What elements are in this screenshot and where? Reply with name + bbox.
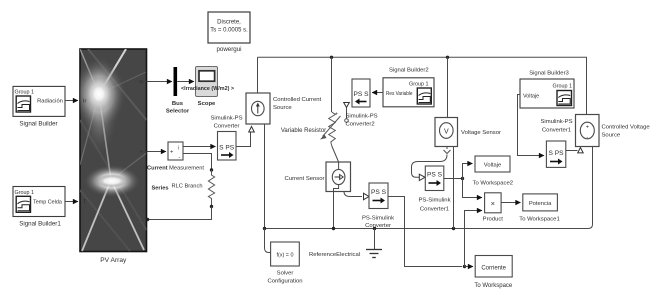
- svg-text:PS S: PS S: [353, 91, 369, 98]
- svg-text:To Workspace: To Workspace: [474, 283, 513, 289]
- svg-text:Signal Builder: Signal Builder: [19, 121, 57, 128]
- wire Signal Builder -> PV Ir: [65, 100, 78, 102]
- svg-text:Signal Builder2: Signal Builder2: [389, 68, 429, 74]
- svg-text:Source: Source: [273, 105, 292, 111]
- svg-text:Current Measurement: Current Measurement: [147, 166, 204, 172]
- svg-text:Signal Builder3: Signal Builder3: [529, 71, 569, 77]
- svg-text:Ts = 0.0005 s.: Ts = 0.0005 s.: [210, 28, 248, 34]
- svg-text:Potencia: Potencia: [529, 201, 552, 207]
- Product: [483, 193, 504, 223]
- svg-text:Converter: Converter: [214, 124, 240, 130]
- svg-text:Controlled Current: Controlled Current: [273, 97, 321, 103]
- svg-text:-: -: [352, 194, 354, 200]
- svg-text:Res Variable: Res Variable: [386, 91, 413, 97]
- wire Current Measurement - -> RLC top: [183, 154, 212, 169]
- wire m -> Bus Selector: [147, 81, 173, 83]
- svg-text:Simulink-PS: Simulink-PS: [210, 116, 242, 122]
- svg-text:Corriente: Corriente: [481, 266, 506, 272]
- Current Measurement: [147, 142, 204, 172]
- svg-text:Current Sensor: Current Sensor: [285, 176, 325, 182]
- svg-text:PS-Simulink: PS-Simulink: [362, 216, 394, 222]
- wire voltage sensor V out -> PS-Simulink Converter1: [412, 155, 448, 178]
- svg-text:-: -: [141, 218, 143, 224]
- svg-text:Selector: Selector: [166, 109, 190, 115]
- svg-text:PS S: PS S: [427, 172, 443, 179]
- svg-text:Variable Resistor: Variable Resistor: [281, 128, 326, 134]
- Solver Configuration: [267, 242, 302, 285]
- svg-text:Simulink-PS: Simulink-PS: [346, 114, 378, 120]
- svg-text:powergui: powergui: [216, 46, 241, 53]
- wire bus -> solver configuration: [265, 229, 271, 253]
- svg-text:V: V: [444, 129, 449, 136]
- Signal Builder3: [520, 71, 574, 109]
- svg-text:m: m: [139, 80, 144, 86]
- svg-text:ReferenceElectrical: ReferenceElectrical: [309, 252, 360, 258]
- PV Array block: [72, 49, 147, 264]
- svg-text:Bus: Bus: [172, 101, 184, 107]
- wire current source top -> top rail: [257, 57, 259, 93]
- Corriente To Workspace: [474, 256, 513, 290]
- wire Current Measurement i -> Simulink-PS Converter: [183, 146, 216, 148]
- PS-Simulink Converter (PS S): [362, 183, 394, 229]
- Potencia To Workspace1: [519, 194, 560, 223]
- svg-text:Controlled Voltage: Controlled Voltage: [602, 125, 651, 131]
- svg-text:Group 1: Group 1: [15, 190, 34, 196]
- Series RLC Branch: [151, 168, 214, 208]
- wire voltage sensor minus -> bus: [453, 147, 455, 229]
- signal label Irradiance: [181, 86, 234, 92]
- svg-text:×: ×: [491, 199, 495, 208]
- svg-text:PV Array: PV Array: [100, 257, 127, 264]
- Current Sensor: [285, 146, 362, 200]
- svg-text:Temp Celda: Temp Celda: [33, 199, 62, 205]
- svg-text:Group 1: Group 1: [409, 82, 428, 88]
- Controlled Voltage Source: [576, 115, 651, 147]
- svg-text:Group 1: Group 1: [553, 84, 572, 90]
- svg-text:S PS: S PS: [548, 150, 564, 157]
- svg-text:Voltage Sensor: Voltage Sensor: [461, 130, 501, 136]
- wire voltage signal junction: [444, 164, 482, 198]
- svg-text:RLC Branch: RLC Branch: [172, 184, 203, 190]
- Simulink-PS Converter (S PS): [218, 132, 237, 161]
- svg-text:-: -: [586, 135, 588, 141]
- wire Bus Selector -> Scope: [177, 81, 194, 83]
- svg-text:Series: Series: [151, 186, 168, 192]
- svg-text:Radiación: Radiación: [37, 98, 63, 104]
- svg-text:Converter2: Converter2: [346, 122, 375, 128]
- svg-text:Solver: Solver: [277, 271, 294, 277]
- PS-Simulink Converter1 (PS S): [418, 166, 450, 213]
- ReferenceElectrical ground: [309, 229, 382, 259]
- wire Product -> Potencia: [501, 202, 520, 204]
- powergui: [208, 12, 250, 53]
- svg-text:Group 1: Group 1: [15, 90, 34, 96]
- svg-text:Voltaje: Voltaje: [484, 163, 501, 169]
- Bus Selector: [166, 67, 190, 115]
- wire current signal: PS S out -> Corriente and Product: [388, 197, 482, 269]
- wire S PS -> voltage source control: [566, 148, 583, 153]
- svg-text:Product: Product: [483, 217, 504, 223]
- Scope: [196, 67, 218, 108]
- svg-text:Converter1: Converter1: [542, 128, 571, 134]
- Variable Resistor: [281, 57, 341, 146]
- svg-text:Ir: Ir: [83, 99, 87, 105]
- svg-text:Configuration: Configuration: [267, 279, 302, 285]
- svg-text:Signal Builder1: Signal Builder1: [19, 221, 61, 228]
- svg-text:PS-Simulink: PS-Simulink: [418, 198, 450, 204]
- wire PV + -> Current Measurement: [147, 151, 167, 153]
- svg-text:To Workspace2: To Workspace2: [473, 181, 514, 187]
- Voltaje To Workspace2: [473, 156, 514, 187]
- svg-text:Discrete,: Discrete,: [217, 20, 241, 26]
- Voltage Sensor: [435, 57, 501, 153]
- wire Signal Builder1 -> PV T: [65, 201, 78, 203]
- top rail wire: [258, 56, 587, 115]
- svg-text:Simulink-PS: Simulink-PS: [540, 119, 572, 125]
- wire S PS -> current source control: [236, 133, 251, 147]
- Controlled Current Source: [246, 93, 321, 132]
- svg-text:i: i: [178, 146, 179, 152]
- PS S Simulink-PS Converter2: [344, 79, 378, 128]
- svg-text:<Irradiance (W/m2) >: <Irradiance (W/m2) >: [181, 86, 234, 92]
- Signal Builder2: [383, 68, 434, 107]
- svg-text:To Workspace1: To Workspace1: [519, 217, 560, 223]
- svg-text:Source: Source: [602, 133, 621, 139]
- signal builder (Radiación): [13, 86, 65, 127]
- svg-text:PS S: PS S: [371, 189, 387, 196]
- svg-text:S PS: S PS: [219, 145, 235, 152]
- Simulink-PS Converter1 (S PS): [540, 119, 572, 167]
- svg-text:Voltaje: Voltaje: [523, 94, 539, 100]
- svg-text:Scope: Scope: [198, 101, 216, 107]
- wire current sensor bottom -> bus: [333, 192, 335, 229]
- svg-text:Converter1: Converter1: [420, 207, 449, 213]
- wire RLC bottom -> PV minus: [146, 207, 212, 222]
- wire current source bottom -> bus: [264, 124, 266, 229]
- signal builder1 (Temp Celda): [13, 187, 65, 228]
- svg-text:-: -: [179, 155, 181, 161]
- Simulink-PS Converter label: [210, 116, 242, 130]
- main reference bus: [263, 147, 593, 231]
- svg-text:+: +: [586, 125, 589, 131]
- svg-text:f(x) = 0: f(x) = 0: [277, 253, 294, 259]
- wire Signal Builder3 -> S PS: [518, 95, 545, 156]
- wire Signal Builder2 -> PS S: [372, 92, 383, 94]
